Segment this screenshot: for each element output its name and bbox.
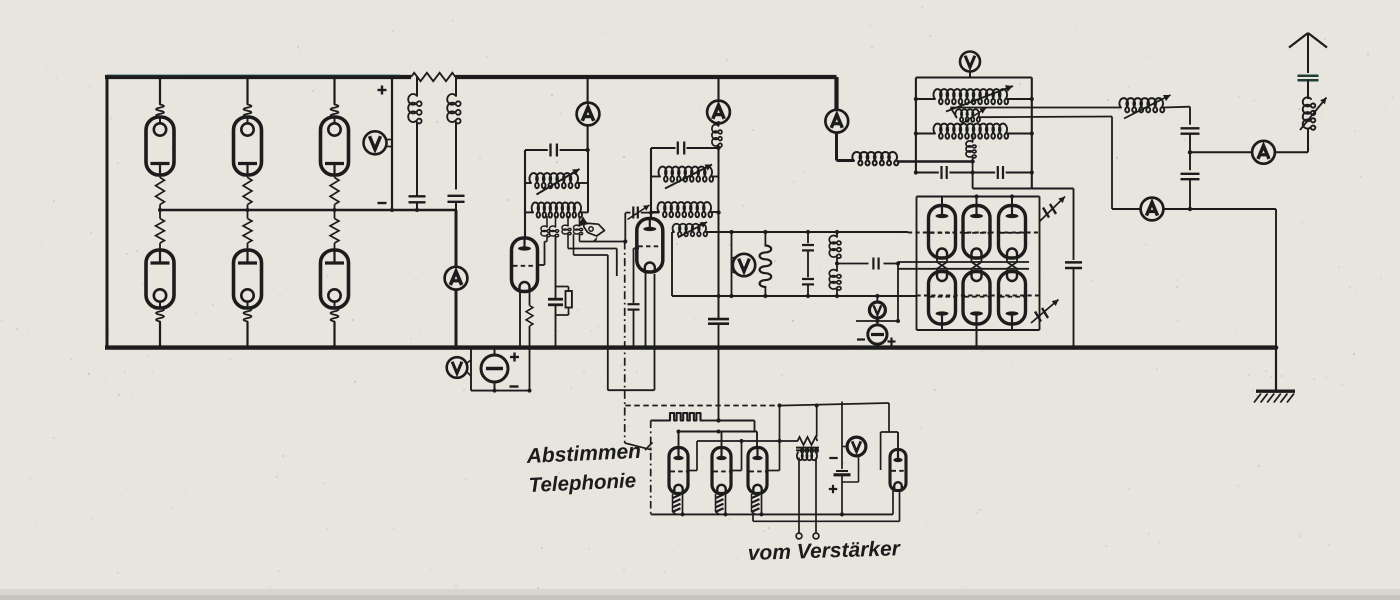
wire anode lead tube V3 (333, 77, 335, 105)
modulator tube V15 cathode lead (682, 494, 684, 515)
modulator tube V15 filament band (673, 495, 681, 499)
wire grid lead riser (544, 242, 546, 266)
filament leads V10 (971, 258, 973, 262)
grid capacitor C4 (548, 298, 563, 301)
PA tank capacitor row (916, 172, 939, 174)
wire grid leak down (555, 236, 557, 299)
modulator tube V16 (721, 432, 723, 448)
ammeter A2 feed wire (587, 77, 589, 104)
minus label (378, 202, 387, 204)
wire tap lead C (573, 234, 575, 255)
wire V2 branch (470, 348, 472, 391)
modulation transformer (798, 437, 818, 445)
voltmeter branch wire (391, 77, 393, 210)
mechanical dash line bias feed (625, 405, 783, 407)
wire left edge of rectifier bank (106, 77, 109, 348)
wire tank right (587, 150, 589, 212)
PA tube V10 (top row) (976, 197, 978, 206)
modulator box top wire (651, 420, 670, 422)
filament squiggle lead tube V6 (331, 308, 339, 322)
resistor R2a (247, 175, 249, 178)
oscillator tube V7 (512, 238, 538, 292)
wire line B stub down (616, 249, 618, 277)
rectifier tube V1 (top row) (146, 117, 174, 175)
keying tube V18 (892, 491, 894, 515)
PA tank coil L9 (916, 133, 935, 135)
wire filament return stage 2 (608, 389, 655, 391)
modulator tube V17 cathode lead (761, 494, 763, 515)
wire bottom ground bus (105, 345, 1277, 349)
wire anode lead tube V2 (246, 77, 248, 105)
oscillator tube V8 (637, 219, 663, 273)
rectifier tube V6 (bottom row) (321, 250, 349, 308)
modulator box left edge dash-dot (650, 421, 652, 515)
resistor R1b (159, 210, 161, 219)
ammeter A4 (825, 110, 848, 133)
filament squiggle lead tube V1 (156, 105, 164, 118)
switch arm (Abstimmen selector) (578, 217, 589, 227)
plus label (378, 89, 387, 91)
filament cross V9 (937, 262, 947, 269)
filament generator G1 (481, 355, 508, 382)
bias battery branch (841, 402, 843, 470)
svg-text:Telephonie: Telephonie (528, 469, 636, 497)
grid choke branch stage PA (836, 232, 838, 237)
modulator grid bus (697, 440, 798, 442)
modulator tube V15 (678, 432, 680, 448)
filament leads V9 (936, 258, 938, 262)
svg-text:vom Verstärker: vom Verstärker (747, 537, 902, 565)
center tap choke (972, 134, 974, 143)
antenna symbol (1289, 33, 1308, 48)
anode feed coil (837, 159, 855, 162)
interstage trimmer capacitor with arrow (625, 212, 630, 214)
antenna loading coil variable (1307, 80, 1309, 99)
rectifier tube V2 (top row) (234, 117, 262, 175)
tank capacitor C5 stage 2 (651, 147, 676, 149)
wire line A junction riser (624, 213, 626, 242)
modulator cathode wire 1 (651, 513, 893, 515)
modulator tube V17 filament band (752, 495, 760, 499)
wire V5 branch down (897, 264, 899, 322)
bias battery symbol (836, 470, 848, 472)
grid leak resistor box (556, 286, 569, 288)
filament squiggle lead tube V5 (244, 308, 252, 322)
mechanical link dash-dot line (624, 242, 626, 444)
wire grid feed corner (671, 232, 673, 296)
voltmeter V6 bias (847, 437, 866, 456)
wire to antenna blocking cap (1032, 188, 1074, 190)
tank coil L6 stage 2 (651, 211, 659, 213)
ammeter A3 feed (717, 77, 719, 102)
resistor R3a (334, 175, 336, 178)
antenna ammeter A6 (1275, 151, 1308, 153)
variable inductor L3 with arrow (525, 182, 531, 184)
modulator cathode wire 2 (752, 514, 754, 521)
filament leads V11 (1006, 258, 1008, 262)
voltmeter V2 filament (447, 357, 468, 378)
wire tank right stage 2 (718, 148, 720, 319)
filter choke L1 (408, 94, 421, 123)
PA tank frame (916, 76, 1032, 78)
wire tank left stage 2 (650, 148, 652, 219)
grid leak choke S1b (555, 216, 557, 227)
PA tank bottom link (972, 173, 974, 189)
ammeter A2 (577, 103, 600, 126)
filament feed wire PA (837, 263, 869, 265)
PA tube V12 (bottom row) (929, 272, 956, 325)
PA tank variable inductor L7 (916, 98, 935, 100)
filament bypass capacitor (872, 258, 874, 270)
wire line B (568, 248, 617, 250)
filament cross V11 (1007, 262, 1017, 269)
filament squiggle lead tube V4 (156, 308, 164, 322)
wire to ground (1275, 209, 1277, 348)
wire filament lead left V7 (519, 292, 521, 348)
wire line A to stage 2 (580, 241, 626, 243)
resistor R2b (247, 210, 249, 219)
PA tube V11 (top row) (1011, 197, 1013, 206)
modulator grid risers (688, 470, 697, 472)
filter capacitor C1 (409, 195, 426, 197)
wire HT negative feed down (455, 210, 458, 268)
filament leads V13 up (971, 269, 973, 272)
filter capacitor C2 (448, 195, 465, 197)
plus label G1 (510, 356, 519, 358)
wire filament return stage 1 (471, 390, 530, 392)
grid coupling choke S1a (546, 216, 548, 227)
filter choke L2 (447, 94, 460, 123)
filter branch 1 wire (416, 77, 418, 96)
filament leads V14 up (1006, 269, 1008, 272)
modulator choke coil (670, 413, 703, 421)
minus label battery (829, 457, 837, 459)
voltmeter V3 (733, 254, 755, 276)
filament leads V12 up (936, 269, 938, 272)
tank coil L4 (525, 211, 533, 213)
rectifier tube V3 (top row) (321, 117, 349, 175)
minus label G2 (857, 338, 865, 340)
voltmeter V of rectifier output (364, 131, 387, 154)
wire anode lead tube V1 (159, 77, 161, 105)
wire pickup to coupling line 2 (979, 116, 1112, 119)
wire cathode lead tube V4 (159, 322, 161, 348)
neutralizing trimmer top with arrow (1043, 208, 1049, 218)
antenna coupling variable coil (1119, 98, 1164, 112)
HT feed corner down (834, 77, 838, 111)
wire tube D plate feed corner (888, 403, 890, 432)
transformer primary right lead (816, 406, 818, 438)
PA tube V14 (bottom row) (999, 272, 1026, 325)
wire anode feed into tank (897, 160, 973, 163)
ammeter A1 in negative lead (445, 267, 468, 290)
pointer line to Abstimmen (625, 443, 652, 450)
coupling choke S2a (567, 216, 569, 226)
coupling choke S2b (579, 216, 581, 226)
plus label battery (829, 488, 837, 490)
wire top HT bus (105, 75, 411, 79)
resistor on HT bus (411, 73, 456, 81)
blocking capacitor C9 wide (716, 294, 720, 298)
modulator tube V17 (756, 432, 758, 448)
voltmeter V5 PA filament (876, 296, 878, 302)
filament lines into PA (898, 261, 1029, 263)
resistor R3b (334, 210, 336, 219)
wire PA cathode to bus (976, 330, 978, 348)
coupling capacitor top (1189, 107, 1191, 125)
wire cathode lead tube V6 (333, 322, 335, 348)
filament generator G2 PA (868, 325, 887, 344)
modulator tube V16 filament band (716, 495, 724, 499)
filament cross V10 (972, 262, 982, 269)
wire mid bus of rectifier bank (160, 209, 456, 211)
antenna pickup coil L8 with arrow (955, 109, 980, 122)
grid capacitor C6 V8 (633, 248, 635, 303)
filament squiggle lead tube V2 (244, 105, 252, 118)
variable inductor L5 stage 2 (651, 176, 660, 178)
plus label G2 (888, 340, 896, 342)
wire line C (574, 254, 608, 256)
anode choke stage 2 (718, 121, 720, 126)
grid lead V8 (634, 247, 640, 249)
rectifier tube V5 (bottom row) (234, 250, 262, 308)
minus label G1 (510, 385, 519, 387)
resistor R1a (159, 175, 161, 178)
wire pickup to coupling line 1 (951, 108, 957, 118)
PA tube V9 (top row) (941, 197, 943, 206)
ammeter A3 (707, 101, 730, 124)
filter branch 2 wire (455, 77, 457, 96)
antenna blocking capacitor C10 (1073, 189, 1075, 261)
wire grid bias bottom line (672, 295, 917, 297)
PA tube box frame (917, 196, 1040, 198)
tank capacitor C3 wire (525, 149, 548, 151)
neutralizing trimmer bottom with arrow (1035, 312, 1041, 322)
filament rheostat V7 (529, 292, 531, 306)
voltmeter V3 branch (731, 232, 733, 296)
wire cathode lead tube V5 (246, 322, 248, 348)
coupling capacitors C7 C8 (807, 232, 809, 243)
wire V5 bottom tie (856, 320, 898, 322)
wire line C corner down (607, 255, 609, 390)
ammeter A5 wire (1112, 208, 1141, 210)
filament lead left V8 (645, 272, 647, 348)
wire coupling line 2 corner (1111, 117, 1113, 210)
voltmeter V4 PA tank (960, 52, 980, 72)
ground symbol (1256, 390, 1295, 393)
antenna series capacitor (1298, 74, 1319, 77)
modulator plate wire (679, 431, 758, 433)
rectifier tube V4 (bottom row) (146, 250, 174, 308)
PA tube V13 (bottom row) (963, 272, 990, 325)
wire grid feed line to PA (706, 231, 908, 233)
wire tank left (524, 150, 526, 238)
coupling capacitor bottom (1181, 173, 1200, 175)
bleeder resistor wavy (764, 232, 766, 246)
filament squiggle lead tube V3 (331, 105, 339, 118)
transformer secondary leads to terminals (798, 458, 800, 534)
modulator tube V16 cathode lead (725, 494, 727, 515)
grid feed var coil with arrow (672, 231, 674, 233)
